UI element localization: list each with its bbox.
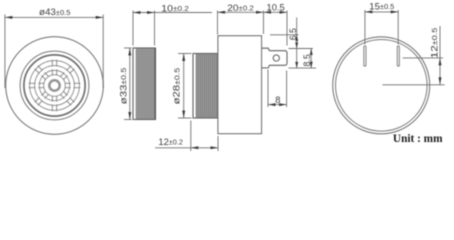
ø28 dim line	[183, 54, 185, 119]
svg-text:ø33±0.5: ø33±0.5	[117, 68, 128, 105]
dimension line ø43	[5, 16, 103, 18]
arrow right ø43	[96, 16, 104, 19]
body-top reference line for 6.5	[270, 34, 299, 36]
grille ring 2	[39, 70, 69, 100]
bezel outer ring	[20, 51, 89, 120]
tab-bottom reference line	[289, 67, 317, 69]
dim line 6.5	[296, 18, 298, 69]
dim 10±0.2 extension right	[154, 11, 156, 46]
grille slots (8 directions, two bands)	[29, 60, 81, 112]
dim 10±0.2 extension left	[132, 11, 134, 46]
grille ring 3	[35, 66, 75, 106]
arrow 8.5 bottom	[310, 62, 313, 69]
ø28 arrow bottom	[182, 111, 185, 119]
arrow right 10	[147, 11, 155, 14]
pin-top reference line	[403, 57, 443, 59]
dim 12±0.2 extension right	[217, 136, 219, 151]
dim 10.5 extension right	[286, 11, 288, 46]
ø33 extension bottom	[124, 119, 132, 121]
dim 15±0.5 extension right	[397, 10, 399, 45]
terminal tab	[261, 48, 287, 68]
arrow at tab-bottom on 6.5 line	[295, 62, 298, 68]
center reference line	[382, 84, 444, 86]
arrow 12 left	[191, 146, 199, 149]
arrow 8.5 top	[310, 49, 313, 56]
arrow 15 right	[391, 10, 399, 13]
rib section rect	[193, 54, 219, 119]
arrow 8 right	[279, 103, 287, 106]
svg-text:10.5: 10.5	[267, 2, 285, 13]
dim 15±0.5 extension left	[364, 10, 366, 45]
svg-text:8.5: 8.5	[302, 54, 312, 66]
svg-text:Unit : mm: Unit : mm	[393, 133, 443, 145]
arrow 8 left	[268, 103, 276, 106]
svg-text:ø28±0.5: ø28±0.5	[171, 68, 182, 105]
ø28 extension top	[178, 53, 192, 55]
dim line 10.5	[264, 11, 288, 13]
lid knurl right edge	[154, 49, 156, 120]
dim 8 extension left	[267, 70, 269, 108]
dimension ø43±0.5 extension line right	[102, 15, 104, 89]
arrow 6.5 top	[295, 35, 298, 41]
dim line 12±0.5	[439, 26, 441, 85]
bezel inner ring	[24, 55, 85, 116]
dim 20±0.2 extension left	[217, 11, 219, 35]
svg-text:12±0.2: 12±0.2	[158, 136, 183, 147]
svg-text:8: 8	[275, 94, 280, 105]
svg-text:6.5: 6.5	[288, 28, 298, 40]
dim 20/10.5 shared extension	[263, 11, 265, 35]
ø33 extension top	[124, 47, 132, 49]
pin 1	[364, 46, 366, 66]
rib fill	[196, 54, 219, 118]
tab hole	[273, 55, 279, 61]
dim 12±0.2 extension left	[190, 121, 192, 152]
arrow 10.5 left	[264, 11, 272, 14]
lid knurl fill	[136, 49, 155, 120]
pin 2	[397, 46, 399, 66]
tab-top reference line	[289, 48, 314, 50]
svg-text:15±0.5: 15±0.5	[369, 0, 394, 11]
grille ring 1	[44, 75, 66, 97]
dimension ø43±0.5 extension line left	[4, 15, 6, 89]
svg-text:10±0.2: 10±0.2	[161, 2, 189, 13]
arrow 15 left	[365, 10, 373, 13]
dim line 8	[268, 104, 287, 106]
ø28 arrow top	[182, 54, 185, 62]
svg-text:20±0.2: 20±0.2	[227, 2, 254, 13]
rib right edge	[217, 54, 219, 118]
back outer circle	[333, 37, 430, 134]
arrow 12 right	[211, 146, 219, 149]
ø33 arrow bottom	[128, 112, 131, 120]
dim line 10±0.2	[133, 12, 212, 14]
arrow 20 left	[218, 11, 226, 14]
outer housing circle	[6, 37, 104, 135]
arrow 12±0.5 bottom	[439, 77, 442, 85]
arrow 10.5 right	[280, 11, 288, 14]
back inner circle	[336, 40, 428, 132]
ø33 arrow top	[128, 48, 131, 56]
dim line 12±0.2	[155, 147, 218, 149]
housing body rect	[218, 36, 262, 134]
dim line 20±0.2	[218, 11, 264, 13]
arrow left ø43	[5, 16, 12, 19]
lid body rect	[133, 48, 156, 120]
dim line 15±0.5	[365, 11, 398, 13]
arrow 20 right	[256, 11, 264, 14]
svg-text:12±0.5: 12±0.5	[428, 28, 439, 59]
arrow 6.5 bottom	[295, 42, 298, 48]
dim 8 extension right	[286, 71, 288, 108]
ø33 dim line	[129, 48, 131, 120]
center donut	[49, 80, 59, 90]
grille ring 4	[30, 61, 80, 111]
ø28 extension bottom	[178, 117, 192, 119]
arrow 12±0.5 top	[439, 58, 442, 66]
arrow left 10	[133, 11, 141, 14]
dim line 8.5	[310, 49, 312, 69]
svg-text:ø43±0.5: ø43±0.5	[39, 6, 71, 17]
